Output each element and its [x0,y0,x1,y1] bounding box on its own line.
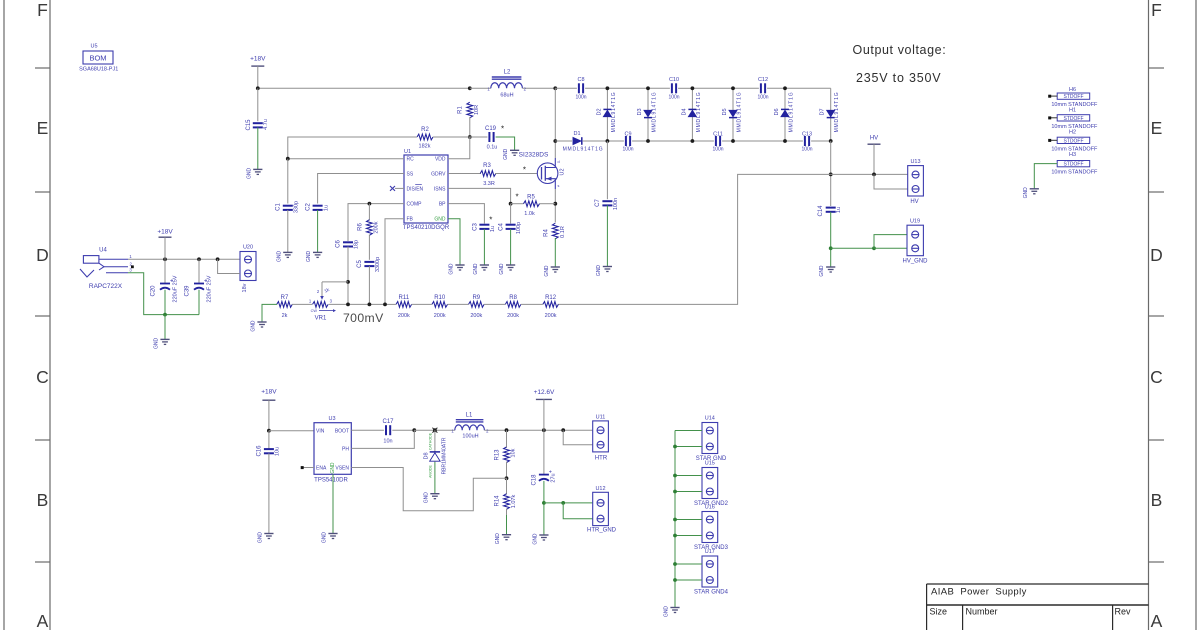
svg-text:HV_GND: HV_GND [902,259,928,265]
wire VSEN feedback [351,468,506,511]
svg-text:U14: U14 [705,416,715,422]
svg-text:MMDL914T1G: MMDL914T1G [652,92,658,133]
diode D4 MMDL914T1G [691,88,693,141]
svg-text:GND: GND [664,606,670,618]
junction VDD node [468,135,472,139]
junction drain at ladder [553,139,557,143]
sheet border right outer line [1195,0,1197,630]
svg-text:SI2328DS: SI2328DS [519,152,549,159]
svg-text:10u: 10u [275,447,281,456]
junction at R13 [505,428,509,432]
svg-text:U5: U5 [90,44,97,50]
junction D5 bottom [731,139,735,143]
svg-text:C12: C12 [758,77,768,83]
connector U19 HV_GND [907,225,923,256]
capacitor C39 220uF 25V [198,259,200,283]
svg-text:ENA: ENA [316,466,327,472]
wire bottom rail D3-D4 [648,140,692,142]
wire +18V rail to R1 [258,87,470,89]
svg-text:Size: Size [930,607,948,617]
junction C18 green [542,501,546,505]
junction at U11 branch [561,428,565,432]
ground star bus [670,607,679,609]
wire to D8/L1 [414,429,455,431]
capacitor C7 100n [606,141,608,199]
svg-text:B: B [1151,490,1163,510]
ground under C7 [603,266,612,268]
border zone tick left y192 [35,191,50,193]
svg-text:R2: R2 [421,127,429,133]
svg-text:C20: C20 [151,285,157,297]
diode D1 MMDL914T1G [555,140,572,142]
svg-text:C17: C17 [382,419,394,425]
junction output HV node [829,173,833,177]
svg-text:L2: L2 [504,70,511,76]
sheet border left outer line [3,0,5,630]
svg-text:Rev: Rev [1115,607,1132,617]
title block outline [927,583,1149,585]
svg-text:1u: 1u [836,207,842,213]
junction at U20 branch [216,257,220,261]
svg-text:1u: 1u [323,205,329,211]
capacitor C12 100n [733,87,759,89]
svg-text:C1: C1 [276,203,282,211]
diode D2 MMDL914T1G [606,88,608,141]
svg-text:D4: D4 [681,108,687,115]
svg-text:3.3R: 3.3R [483,181,495,187]
capacitor C1 330p [283,205,293,207]
svg-text:RBR1MM40ATR: RBR1MM40ATR [441,437,447,474]
wire +18V to VIN [269,430,314,432]
svg-text:R7: R7 [281,295,289,301]
svg-text:GND: GND [819,265,825,277]
svg-text:C: C [1150,367,1163,387]
resistor R3 3.3R [480,171,496,177]
border zone tick left y316 [35,315,50,317]
svg-text:C13: C13 [802,131,812,137]
svg-text:GND: GND [423,492,429,504]
wire ISNS node to C4 [510,204,512,224]
ground under C18 [539,534,548,536]
svg-text:200k: 200k [373,221,379,233]
diode D7 MMDL914T1G [830,88,832,141]
capacitor C19 0.1u [470,136,488,138]
svg-text:HTR: HTR [595,456,608,462]
svg-text:*: * [515,192,518,201]
junction wiper tie [346,280,350,284]
svg-text:R10: R10 [434,295,446,301]
svg-text:+18V: +18V [250,56,266,63]
junction D2 bottom [606,139,610,143]
junction COMP at R6 [368,202,372,206]
connector U4 barrel jack RAPC722X [83,256,99,264]
connector U15 STAR GND2 [702,468,718,499]
resistor R5 1.0k [511,203,524,205]
svg-text:R14: R14 [495,495,501,507]
svg-text:C2: C2 [305,203,311,211]
standoff box H3 [1057,161,1090,167]
svg-text:HV: HV [910,199,918,205]
wire bottom rail D5-D6 [733,140,785,142]
connector U13 HV [908,166,924,196]
wire star ground bus [674,431,676,608]
wire output column [830,141,832,206]
ENA no-connect stub [304,467,315,469]
junction D3 top [646,86,650,90]
wire ISNS [448,188,511,203]
resistor R1 10R [467,102,473,118]
junction U19 branch [872,246,876,250]
resistor R10 200k [432,302,448,308]
wire R3 to gate [495,173,537,175]
svg-text:GND: GND [276,250,282,262]
junction C6 at divider [346,303,350,307]
connector U20 18V [240,252,256,281]
svg-text:*: * [489,216,492,225]
svg-text:C3: C3 [472,223,478,231]
diode D5 MMDL914T1G [732,88,734,141]
svg-text:R4: R4 [543,229,549,237]
ground under R7 [257,321,266,323]
svg-text:SGA68U18-PJ1: SGA68U18-PJ1 [79,67,118,73]
svg-text:SS: SS [407,171,414,177]
svg-text:100n: 100n [757,94,768,100]
svg-text:U15: U15 [705,461,715,467]
wire VR1 wiper tie [322,281,348,283]
op-amp U1 TPS40210 controller box [404,155,448,223]
wire U1 GND pin [448,219,460,265]
svg-text:MMDL914T1G: MMDL914T1G [696,92,702,133]
svg-text:B: B [37,490,49,510]
svg-text:D1: D1 [573,131,580,137]
svg-text:FB: FB [407,217,414,223]
wire RC to node [288,158,404,160]
svg-text:0.1u: 0.1u [487,144,498,150]
svg-text:L1: L1 [466,413,473,419]
svg-text:U19: U19 [910,219,920,225]
svg-text:R5: R5 [527,195,535,201]
capacitor C11 100n [692,140,714,142]
wire FB to divider [385,219,404,305]
svg-text:BOOT: BOOT [335,428,349,434]
svg-text:C9: C9 [624,131,631,137]
wire feedback from HV node to divider [558,174,831,304]
svg-text:C7: C7 [595,199,601,207]
inductor L1 100uH [455,425,485,430]
svg-text:C5: C5 [357,260,363,268]
junction BOOT/PH node [412,428,416,432]
ground under C20 [160,338,169,340]
wire to U15 pin1 [675,475,702,477]
svg-text:H6: H6 [1069,87,1076,93]
resistor R12 200k [543,302,559,308]
svg-text:*: * [501,125,504,134]
svg-text:MMDL914T1G: MMDL914T1G [834,92,840,133]
wire to U14 pin1 [675,430,702,432]
svg-text:R8: R8 [509,295,517,301]
junction C5 at divider [368,303,372,307]
wire to GND below C20 [164,315,166,340]
svg-text:F: F [1151,0,1162,20]
svg-text:100uH: 100uH [462,434,478,440]
svg-text:GND: GND [449,263,455,275]
junction ground net at C20 [163,313,167,317]
junction D5 top [731,86,735,90]
junction ISNS node [509,202,513,206]
ground under C2 [313,251,322,253]
wire COMP network [348,204,404,241]
svg-text:Output voltage:: Output voltage: [853,43,947,57]
junction R13/R14 divider [505,476,509,480]
junction D4 bottom [691,139,695,143]
junction HV_GND green [829,246,833,250]
wire source to sense [554,189,556,223]
svg-text:DIS/EN: DIS/EN [407,186,424,192]
ground under C15 [253,168,262,170]
svg-text:200k: 200k [507,313,519,319]
svg-text:STDOFF: STDOFF [1064,138,1084,144]
svg-text:STAR GND4: STAR GND4 [694,589,729,595]
svg-text:D3: D3 [637,108,643,115]
svg-text:100n: 100n [801,147,812,153]
connector U14 STAR GND [702,423,718,454]
border zone tick right y192 [1149,191,1165,193]
svg-text:GND: GND [154,337,160,349]
svg-text:A: A [37,611,49,630]
svg-text:18v: 18v [242,283,248,292]
wire BP to C3 [448,204,484,224]
svg-text:C18: C18 [532,474,538,486]
svg-text:68uH: 68uH [500,93,513,99]
svg-text:STDOFF: STDOFF [1064,162,1084,168]
connector U16 STAR GND3 [702,512,718,543]
resistor R7 2k [277,302,293,308]
potentiometer VR1 1k [313,302,329,308]
svg-text:U2: U2 [560,168,566,175]
wire to U12 pin2 [563,503,593,519]
wire to U17 pin1 [675,563,702,565]
standoff box H2 [1057,137,1090,143]
junction D2 top [606,86,610,90]
power +18V (input) [159,236,172,238]
svg-text:GND: GND [1023,187,1029,199]
svg-text:H2: H2 [1069,129,1076,135]
svg-text:R3: R3 [483,163,491,169]
wire divider segments [412,303,432,305]
svg-text:R6: R6 [357,223,363,231]
svg-text:GND: GND [499,263,505,275]
connector U17 STAR GND4 [702,556,718,587]
svg-text:D6: D6 [774,108,780,115]
svg-text:1.07k: 1.07k [511,495,517,509]
svg-text:D2: D2 [596,108,602,115]
capacitor C13 100n [785,140,803,142]
junction at +12.6V [542,428,546,432]
wire to U16 pin1 [675,519,702,521]
svg-text:100n: 100n [712,147,723,153]
ground under standoffs [1030,188,1039,190]
resistor R9 200k [469,302,485,308]
svg-text:RC: RC [407,157,415,163]
svg-text:C10: C10 [669,77,679,83]
capacitor C4 100p [506,224,516,226]
svg-text:U12: U12 [595,486,605,492]
junction U12 branch [561,501,565,505]
border zone tick right y440 [1149,439,1165,441]
ground under D8 [430,493,439,495]
wire to U17 pin2 [675,579,702,581]
wire VDD up to node [448,137,470,159]
capacitor C5 3300p [364,261,374,263]
svg-text:D7: D7 [820,108,826,115]
junction at C39 [197,257,201,261]
capacitor C18 27u [543,430,545,474]
svg-text:U13: U13 [910,159,920,165]
svg-text:+18V: +18V [157,229,173,236]
border zone tick right y562 [1149,561,1165,563]
svg-text:d: d [557,160,559,164]
svg-text:F: F [37,0,48,20]
capacitor C16 10u [268,431,270,449]
wire C18 to U12 [544,502,593,504]
junction FB at divider [383,303,387,307]
ground under C4 [506,264,515,266]
svg-text:U4: U4 [99,248,107,254]
svg-text:C4: C4 [499,223,505,231]
svg-text:200k: 200k [545,313,557,319]
svg-text:R9: R9 [472,295,480,301]
svg-text:VSEN: VSEN [335,466,349,472]
svg-text:MMDL914T1G: MMDL914T1G [563,146,604,152]
svg-text:STDOFF: STDOFF [1064,94,1084,100]
svg-text:GND: GND [495,533,501,545]
svg-text:+18V: +18V [261,389,277,396]
wire PH pin [351,430,414,448]
inductor L2 68uH [470,87,491,89]
svg-text:R12: R12 [545,295,557,301]
svg-text:1u: 1u [490,226,496,232]
ground under C3 [480,264,489,266]
ground under C1 [283,251,292,253]
svg-text:200k: 200k [434,313,446,319]
svg-text:U1: U1 [404,149,411,155]
capacitor C14 1u [826,207,836,209]
ground under R4 [551,266,560,268]
wire to U11 pin2 [563,430,593,445]
svg-text:VDD: VDD [435,157,446,163]
junction D4 top [691,86,695,90]
svg-text:GND: GND [306,250,312,262]
svg-text:MMDL914T1G: MMDL914T1G [789,92,795,133]
svg-text:2k: 2k [282,313,288,319]
wire HV_GND to U19 [831,247,874,249]
svg-text:10mm STANDOFF: 10mm STANDOFF [1051,170,1098,176]
ground under C16 [264,533,273,535]
wire R7 to ground [262,304,277,322]
svg-text:RAPC722X: RAPC722X [89,283,123,290]
resistor R6 200k [368,204,370,221]
resistor R8 200k [505,302,521,308]
diode D6 MMDL914T1G [784,88,786,141]
svg-text:C19: C19 [485,126,497,132]
svg-text:ANODE: ANODE [428,465,432,478]
junction D6 top [783,86,787,90]
capacitor C3 1u [479,224,489,226]
junction at HV drop [872,173,876,177]
svg-text:BOM: BOM [89,54,106,63]
svg-text:GND: GND [251,320,257,332]
wire to U19 pin2 [874,247,907,249]
junction +18V rail at C20 [163,257,167,261]
svg-text:HTR_GND: HTR_GND [587,528,617,534]
svg-text:GND: GND [596,265,602,277]
svg-text:PH: PH [342,447,349,453]
resistor R4 0.1R [552,223,558,239]
svg-text:HV: HV [870,136,878,142]
connector U12 HTR_GND [593,492,609,525]
junction rail at drain node [553,86,557,90]
capacitor C2 1u [313,205,323,207]
svg-text:GND: GND [544,265,550,277]
svg-text:A: A [1151,611,1163,630]
junction rail at R1 [468,86,472,90]
svg-text:U11: U11 [596,414,606,420]
svg-text:18p: 18p [354,240,360,249]
junction star bus dots [673,445,677,449]
wire HV node to U13 [831,173,908,175]
border zone tick right y68 [1149,67,1165,69]
svg-text:D: D [36,245,49,265]
svg-text:U3: U3 [328,416,335,422]
wire to U15 pin2 [675,491,702,493]
svg-text:220uF 25V: 220uF 25V [173,275,179,302]
svg-text:100n: 100n [575,94,586,100]
svg-text:C: C [36,367,49,387]
svg-text:GND: GND [246,167,252,179]
junction D6 bottom [783,139,787,143]
svg-text:C6: C6 [336,240,342,248]
border zone tick left y440 [35,439,50,441]
svg-text:200k: 200k [398,313,410,319]
svg-text:C16: C16 [257,445,263,457]
resistor R11 200k [396,302,412,308]
wire U20 pin2 to +18V rail [218,259,240,273]
diode D8 RBR1MM40ATR catch diode [434,430,436,451]
no-connect X on DIS/EN pin [395,187,404,189]
svg-text:BP: BP [439,202,446,208]
border zone tick right y316 [1149,315,1165,317]
ground under U3 [328,533,337,535]
svg-text:C8: C8 [577,77,584,83]
wire BOOT to C17 [351,429,384,431]
resistor R2 182k [417,134,433,140]
svg-text:GND: GND [473,263,479,275]
wire GDRV to R3 [448,173,481,175]
wire to U19 pin1 [874,235,907,249]
resistor R14 1.07k [506,478,508,494]
diode D3 MMDL914T1G [647,88,649,141]
op-amp U3 TPS5410 buck regulator box [314,423,351,475]
svg-text:*: * [523,166,526,175]
ground under R14 [502,534,511,536]
sheet border left inner line [49,0,51,630]
svg-text:3300p: 3300p [375,257,381,272]
svg-text:D: D [1150,245,1163,265]
junction at D8 [433,428,437,432]
wire SS to C2 [318,174,404,204]
svg-text:+12.6V: +12.6V [534,389,555,396]
svg-text:STDOFF: STDOFF [1064,116,1084,122]
